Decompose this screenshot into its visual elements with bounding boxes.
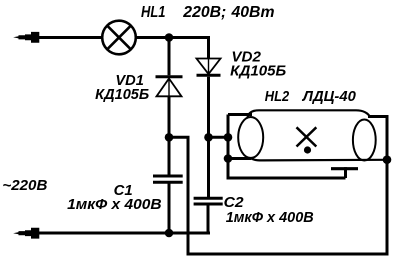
svg-text:40Вт: 40Вт [230, 4, 274, 21]
svg-text:220В;: 220В; [182, 4, 226, 21]
svg-text:~220В: ~220В [2, 178, 47, 194]
svg-text:HL2: HL2 [265, 89, 289, 105]
svg-text:С2: С2 [224, 195, 244, 211]
svg-text:КД105Б: КД105Б [230, 64, 286, 80]
svg-text:ЛДЦ-40: ЛДЦ-40 [302, 89, 356, 105]
svg-text:КД105Б: КД105Б [95, 87, 149, 103]
svg-text:1мкФ х 400В: 1мкФ х 400В [67, 197, 162, 213]
svg-text:HL1: HL1 [141, 4, 166, 21]
svg-text:1мкФ х 400В: 1мкФ х 400В [226, 210, 314, 226]
